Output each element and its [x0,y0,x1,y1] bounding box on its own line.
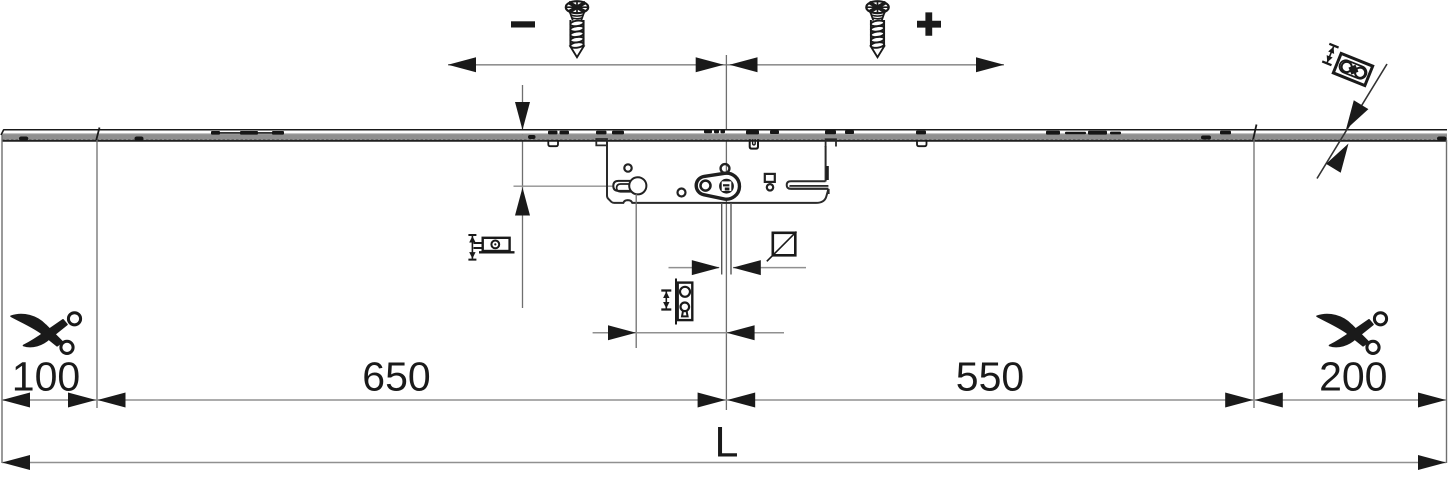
reference line right edge x=1446.5 [1446,140,1448,463]
arrow up to keyhole axis [515,188,530,216]
pointer arrow upper [1346,100,1368,129]
svg-text:200: 200 [1319,354,1387,400]
pointer arrow lower [1326,144,1348,173]
bowtie at 96 [68,393,96,408]
cut mark tick at x=97 [96,128,100,142]
screw hole upper left in case [624,164,631,171]
reference line x=97 [96,140,98,408]
roller cam icon [468,235,514,260]
arrow left end [2,393,30,408]
square spindle symbol [773,233,796,256]
svg-text:550: 550 [956,354,1024,400]
bowtie at center [698,393,726,408]
screw hole above follower [721,164,730,173]
thin slot line left cluster [219,132,284,134]
spindle vertical lines below follower [721,203,723,275]
rail clip right [917,140,927,146]
adjust glyph for tilted icon [1322,44,1338,65]
screw left (minus adjustment screw) [566,1,588,57]
cut mark tick at x=1254 [1253,125,1257,141]
keyhole-center distance dimension [593,332,784,334]
scissors right [1317,313,1387,354]
scissors left [11,313,81,354]
vertical dimension line at x=522.5 [522,85,524,308]
small hole below square [767,184,773,190]
keyhole axis vertical line [635,194,637,348]
rail holes and slots [19,130,1447,141]
rail body [1,130,1447,141]
cylinder keyhole [613,177,646,194]
overall length dimension line [2,462,1446,464]
arrow center right [730,57,758,72]
spindle width dimension [669,267,720,269]
svg-text:100: 100 [12,354,80,400]
screw right (plus adjustment screw) [866,1,888,57]
minus sign [511,21,535,27]
dark mark on right edge [826,166,829,180]
reference line x=1254 [1253,139,1255,408]
escutcheon icon [661,279,692,325]
arrow left out [448,57,476,72]
diagonal pointer line [1317,64,1387,179]
tilted cam icon top right [1333,53,1372,85]
arrow right end [1418,393,1446,408]
gearbox right edge [825,146,827,182]
centerline [725,55,727,410]
top adjustment dimension line [448,64,1004,66]
hook slot [787,181,829,194]
gearbox left tab [596,139,607,146]
rail clip left [548,140,558,146]
small square hole right [765,174,775,182]
arrow down to rail [515,102,530,130]
main dimension line [2,399,1446,401]
svg-text:L: L [715,419,739,467]
plus sign [917,12,941,35]
small hole center [678,189,686,197]
follower boss [696,173,739,199]
arrow right out [976,57,1004,72]
svg-text:650: 650 [362,354,430,400]
rail left end cap [1,130,4,136]
gearbox right tab [826,139,836,147]
bowtie at 1254 [1225,393,1253,408]
arrow center left [696,57,724,72]
clip piece on rail above gearbox [750,139,758,148]
reference line left edge x=2 [1,135,3,463]
gearbox case outline [607,141,829,203]
keyhole axis horizontal line [514,185,614,187]
